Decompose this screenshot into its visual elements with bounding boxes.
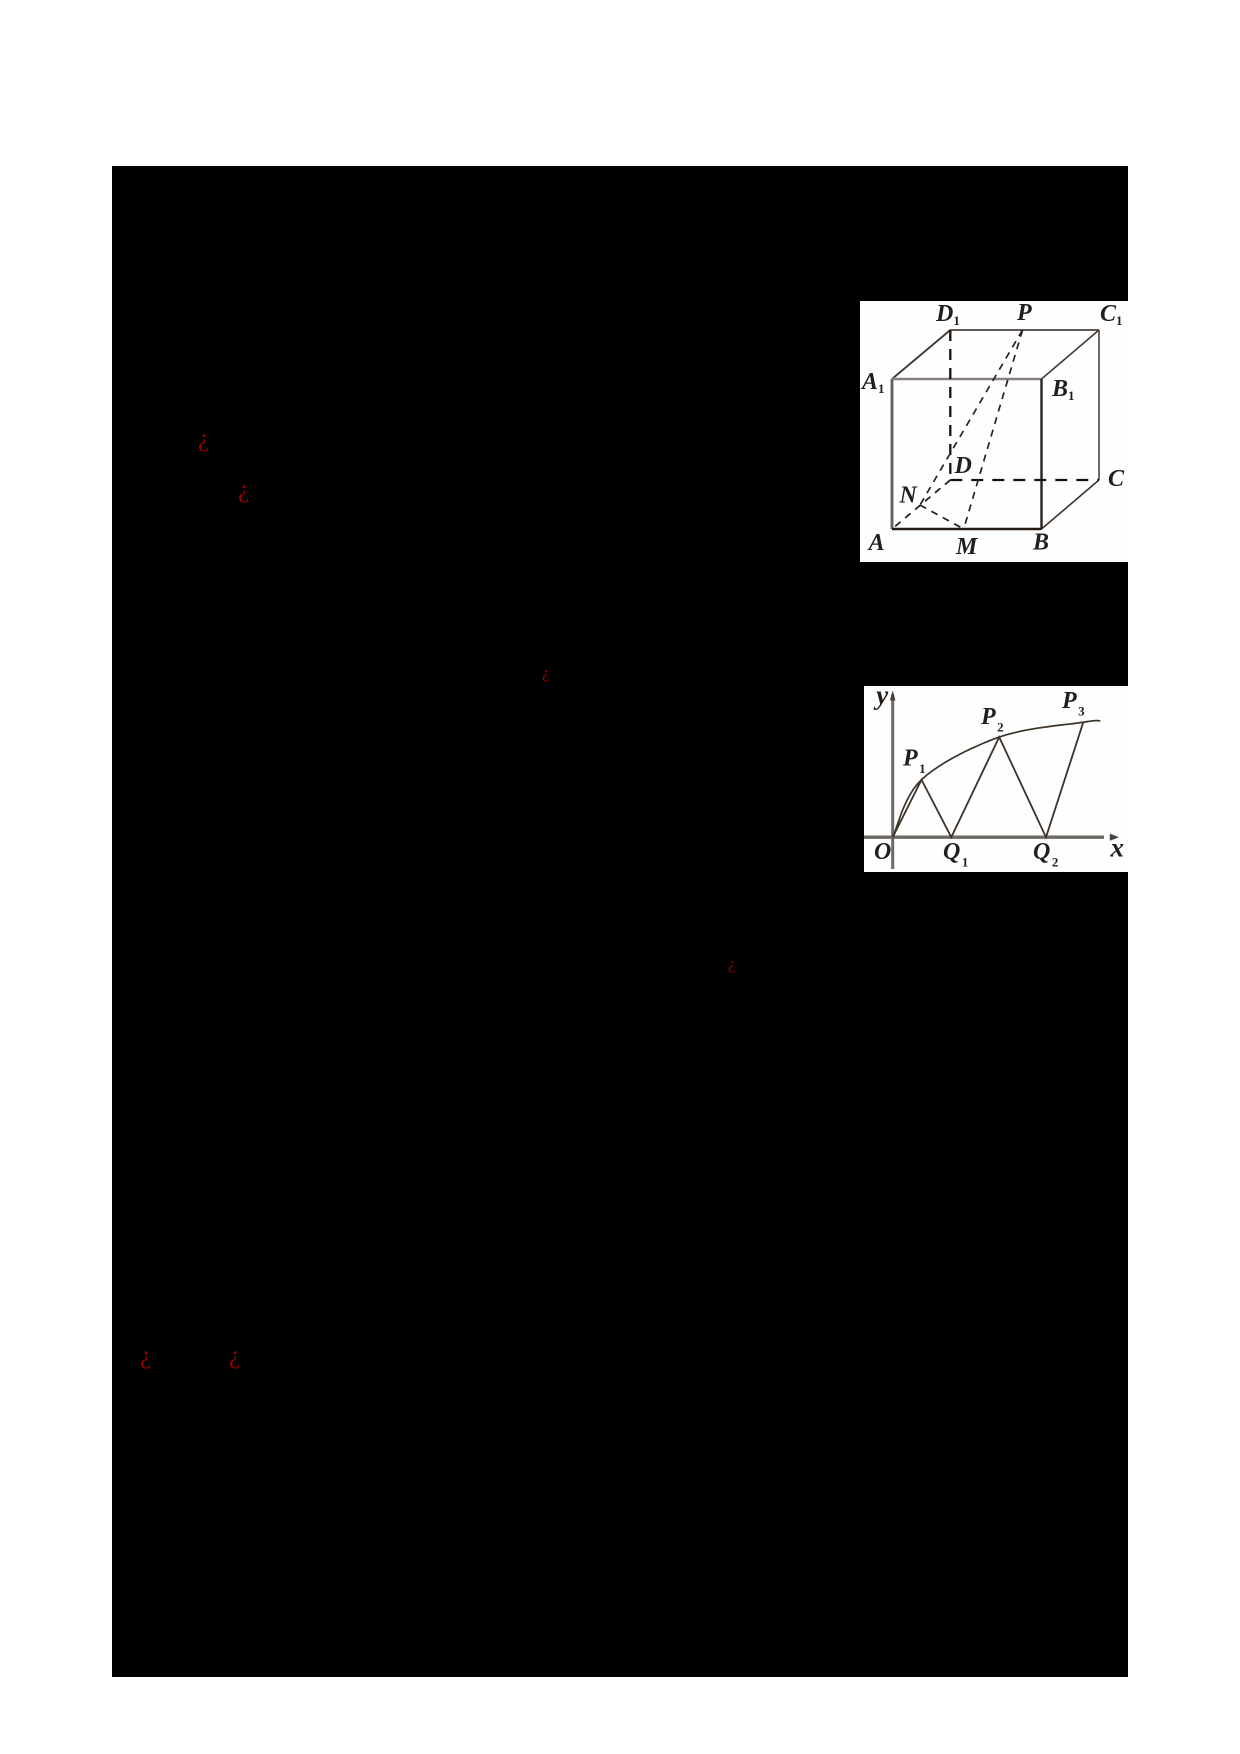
- x axis arrowhead: [1110, 834, 1119, 841]
- red glyph 1: [198, 426, 209, 451]
- section line P-M dashed: [964, 330, 1023, 529]
- red glyph 5: [140, 1343, 151, 1368]
- edge A1-A front left: [891, 379, 894, 529]
- svg-text:B: B: [1032, 530, 1049, 556]
- cube figure box: [860, 301, 1128, 562]
- edge B1-C1: [1042, 330, 1100, 379]
- svg-text:C: C: [1108, 466, 1125, 492]
- hidden edge D-C dashed: [950, 479, 1099, 481]
- hidden edge D-A dashed through N: [892, 480, 950, 529]
- svg-text:N: N: [899, 483, 919, 509]
- hidden edge D1-D dashed: [949, 330, 951, 480]
- zigzag O-P1-Q1-P2-Q2-P3: [893, 722, 1084, 837]
- section line N-M dashed: [920, 505, 964, 529]
- y axis: [891, 694, 894, 869]
- svg-text:O: O: [874, 839, 891, 865]
- svg-text:P3: P3: [1061, 688, 1085, 719]
- x axis: [864, 836, 1104, 839]
- svg-text:P1: P1: [902, 746, 926, 777]
- black page area: [112, 166, 1128, 1677]
- red glyph 6: [229, 1343, 240, 1368]
- svg-text:y: y: [873, 686, 889, 710]
- y axis arrowhead: [890, 691, 896, 701]
- svg-text:P: P: [1016, 301, 1032, 326]
- edge A-B front bottom: [892, 528, 1042, 531]
- svg-text:A1: A1: [860, 369, 885, 396]
- svg-text:x: x: [1110, 832, 1125, 862]
- svg-text:B1: B1: [1051, 376, 1075, 403]
- edge C1-C: [1098, 330, 1100, 480]
- edge A1-B1 front top: [892, 378, 1042, 381]
- svg-text:Q2: Q2: [1033, 839, 1058, 870]
- section line P-N dashed: [920, 330, 1023, 505]
- svg-text:Q1: Q1: [943, 839, 968, 870]
- edge A1-D1: [892, 330, 950, 379]
- svg-text:C1: C1: [1100, 301, 1123, 328]
- svg-text:M: M: [955, 534, 979, 560]
- edge B-C: [1042, 480, 1100, 529]
- svg-text:D1: D1: [935, 301, 960, 328]
- edge B1-B front right: [1040, 379, 1042, 529]
- svg-text:A: A: [867, 530, 885, 556]
- edge D1-C1: [950, 329, 1099, 331]
- svg-text:P2: P2: [980, 704, 1004, 735]
- svg-text:D: D: [954, 453, 972, 479]
- red glyph 3: [542, 664, 550, 681]
- curve through P1 P2 P3: [893, 721, 1101, 838]
- red glyph 2: [238, 477, 249, 502]
- red glyph 4: [728, 955, 736, 972]
- graph figure box: [864, 686, 1128, 872]
